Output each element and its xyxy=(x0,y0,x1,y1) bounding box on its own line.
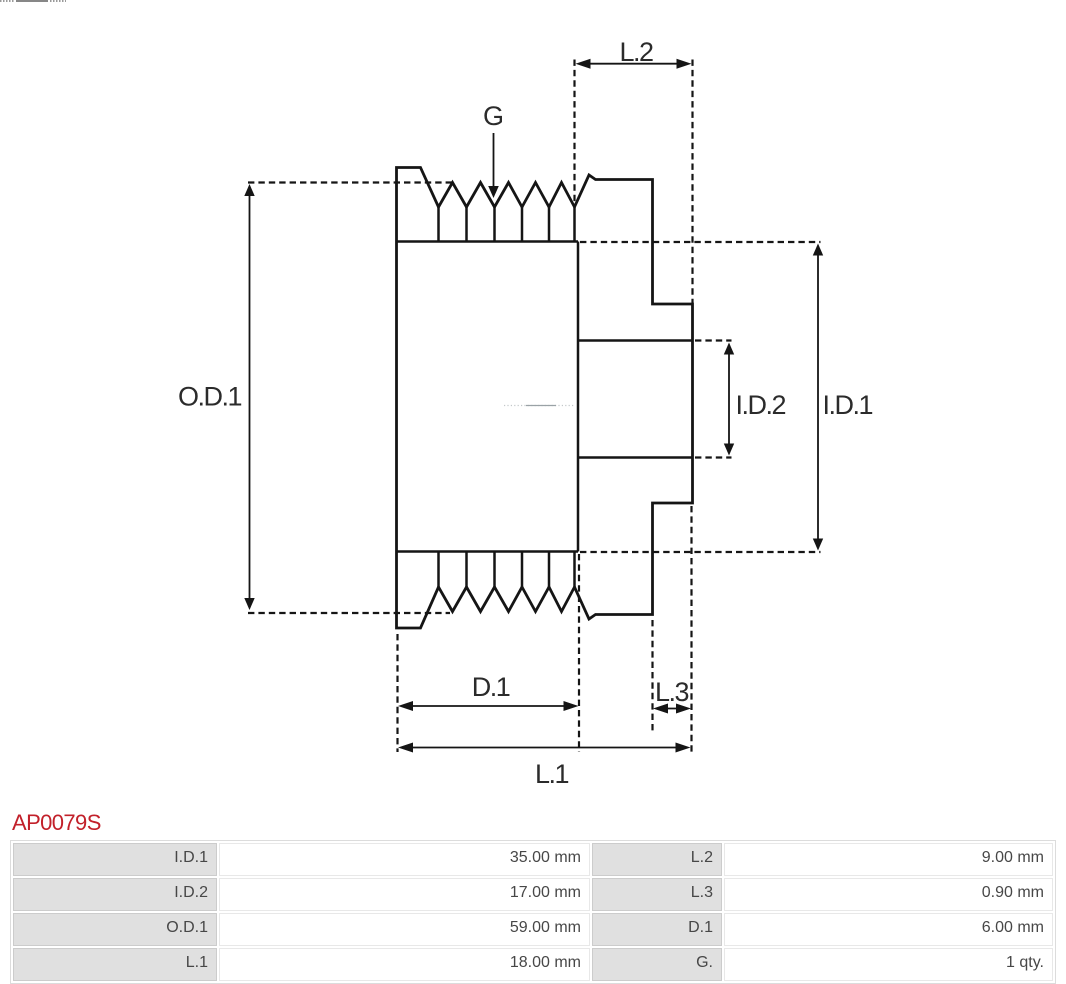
svg-text:L.3: L.3 xyxy=(655,677,689,707)
svg-text:O.D.1: O.D.1 xyxy=(178,382,242,412)
svg-text:I.D.1: I.D.1 xyxy=(823,390,873,420)
dimension L.3 arrow line xyxy=(657,708,687,710)
specification table xyxy=(10,840,1056,984)
dimension I.D.1 dashed extension lines xyxy=(580,242,821,552)
dimension I.D.2 dashed extension lines xyxy=(695,341,732,458)
dimension L.1 arrow line xyxy=(404,747,685,749)
svg-text:L.2: L.2 xyxy=(619,37,653,67)
svg-text:I.D.2: I.D.2 xyxy=(736,390,786,420)
dimension L.2 dashed extension lines xyxy=(575,60,693,304)
dimension I.D.2 arrow line xyxy=(728,350,730,448)
dimension I.D.1 arrow line xyxy=(817,250,819,544)
dimension D.1 dashed extension lines xyxy=(398,554,580,752)
pulley body edges xyxy=(397,242,579,552)
bore I.D.2 section lines xyxy=(578,341,693,458)
dimension L.3 dashed extension lines xyxy=(653,506,692,752)
svg-text:L.1: L.1 xyxy=(535,759,569,789)
groove rib vertical lines (top) xyxy=(439,207,575,242)
svg-text:G: G xyxy=(483,101,504,131)
dimension O.D.1 dashed extension lines xyxy=(248,183,453,614)
part number heading xyxy=(12,810,101,836)
dimension D.1 arrow line xyxy=(404,705,573,707)
dimension L.2 arrow line xyxy=(580,63,687,65)
faint centerline xyxy=(504,405,574,407)
cropped logo remnant top-left xyxy=(0,0,15,2)
dimension O.D.1 arrow line xyxy=(249,190,251,604)
groove rib vertical lines (bottom) xyxy=(439,552,575,588)
pulley outer silhouette with poly-V grooves xyxy=(397,168,693,629)
svg-text:D.1: D.1 xyxy=(472,672,510,702)
